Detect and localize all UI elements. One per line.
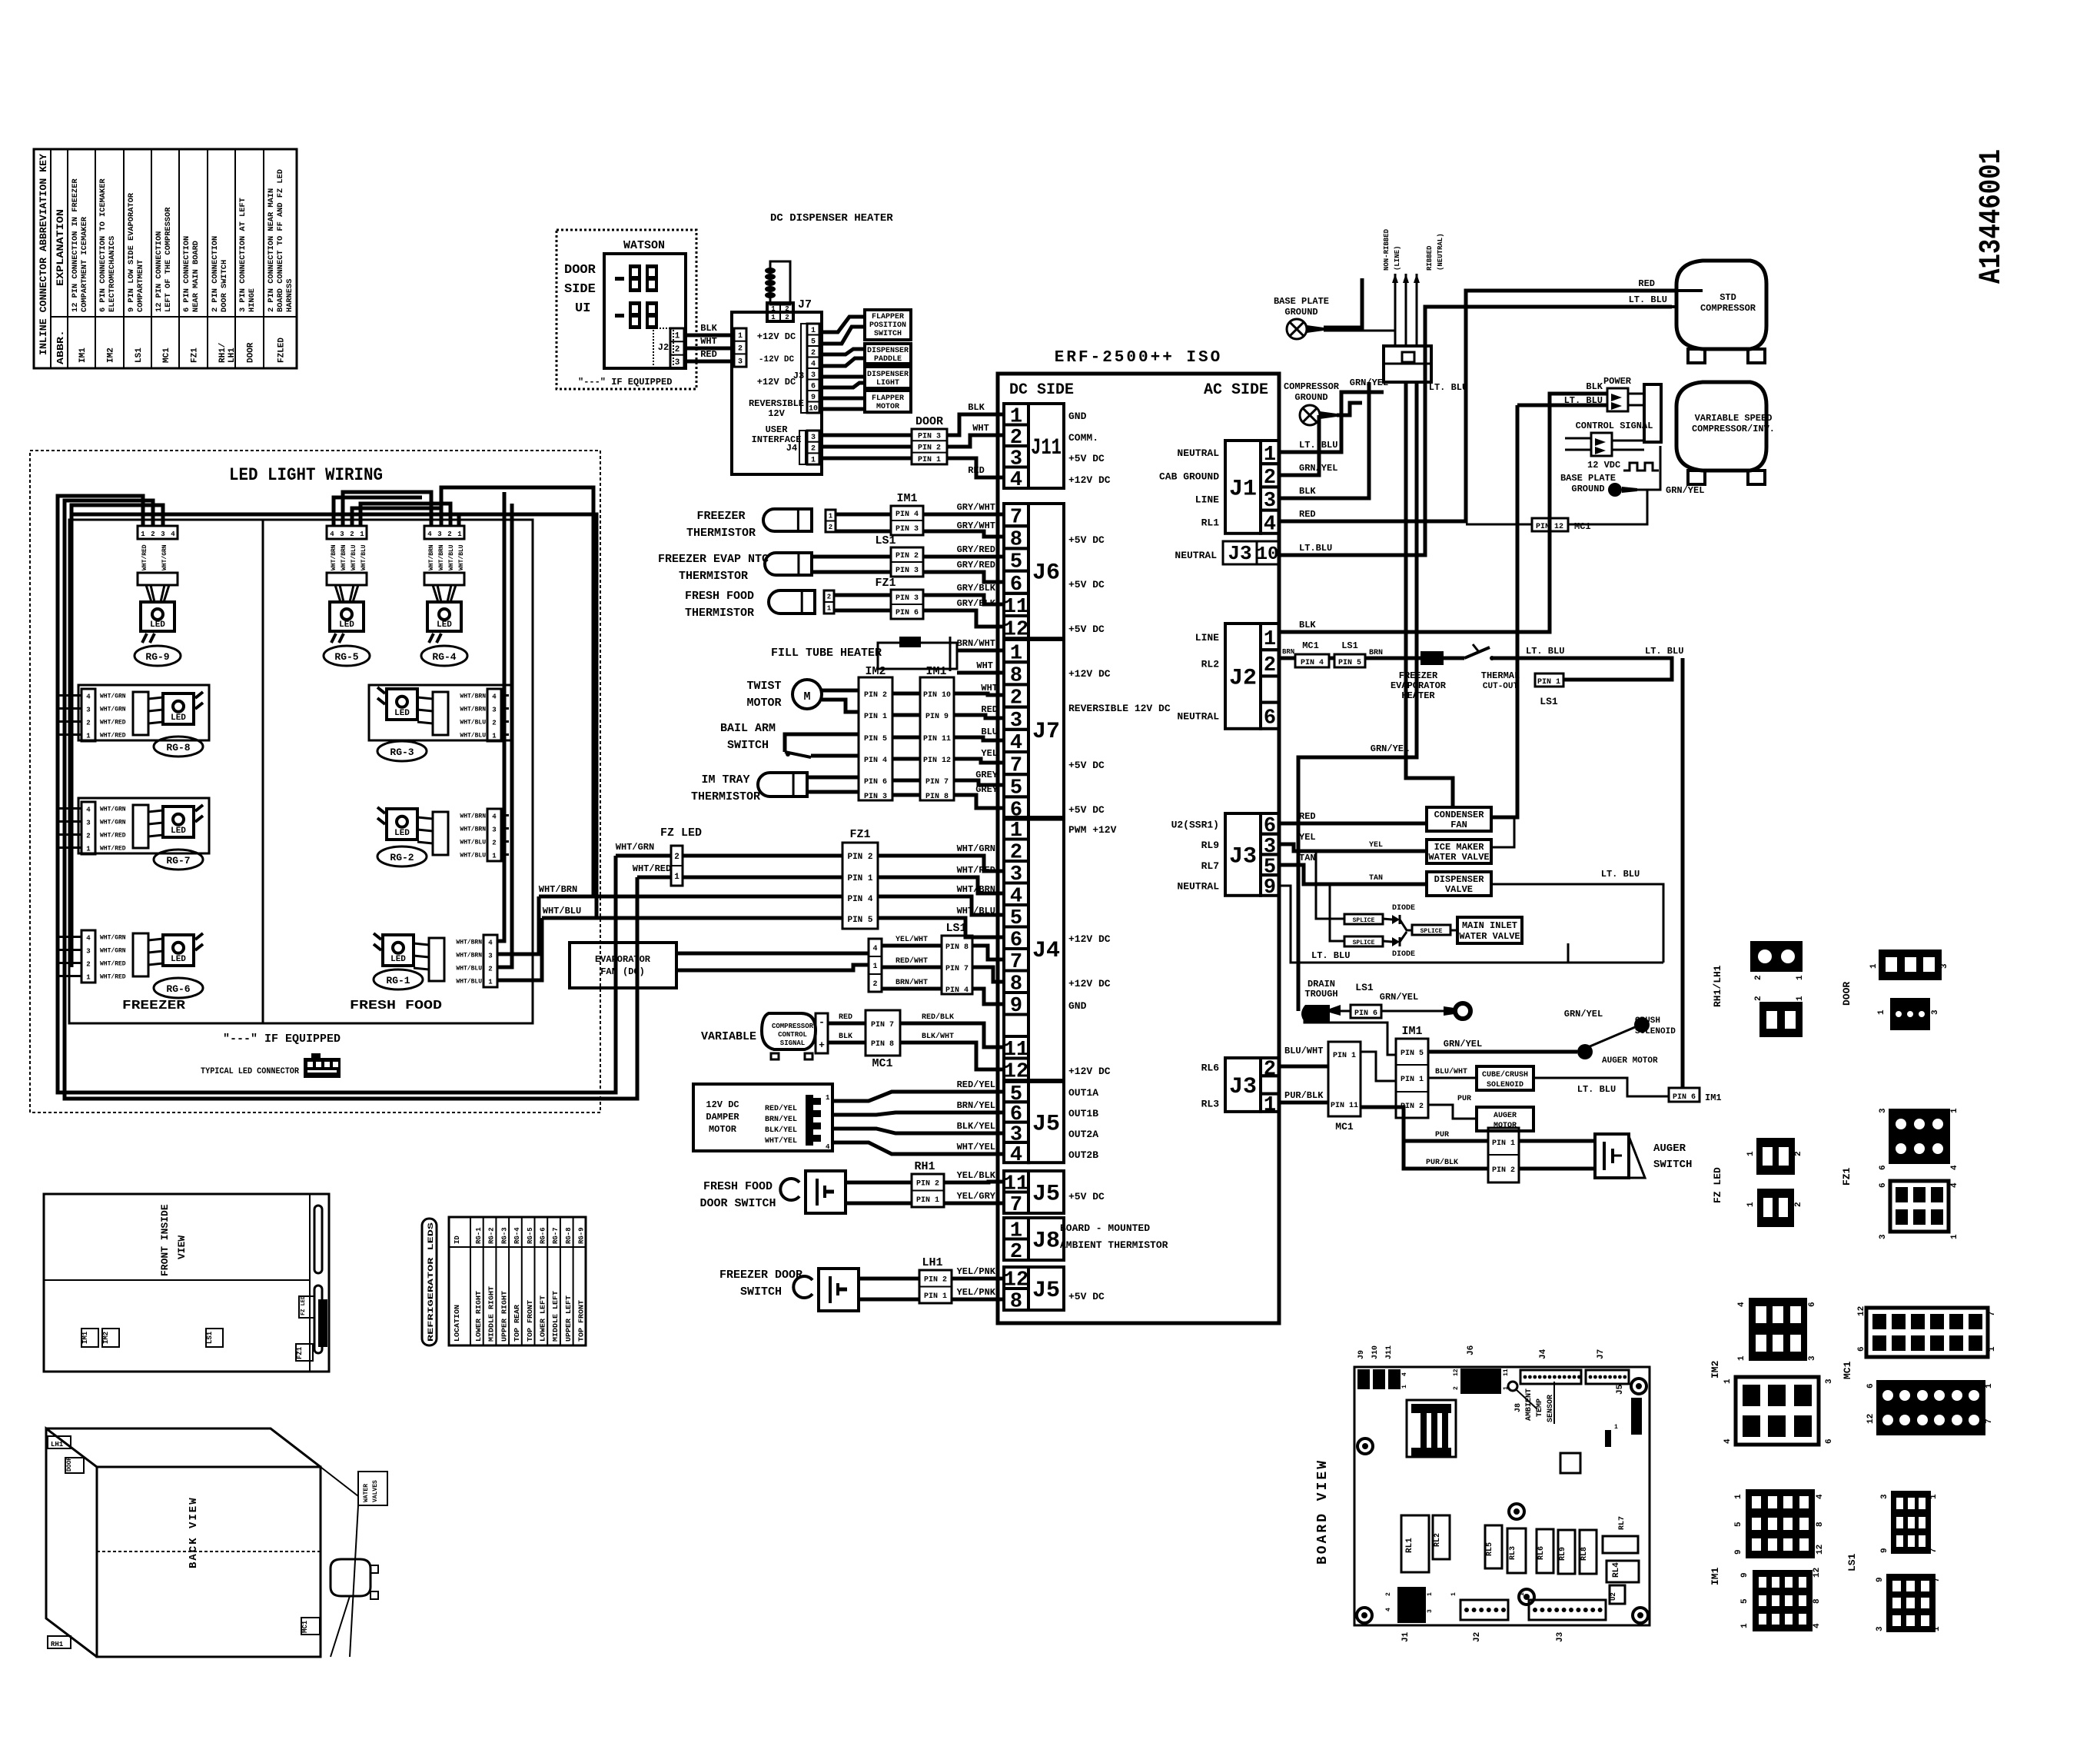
svg-text:PADDLE: PADDLE (874, 355, 902, 364)
svg-text:2: 2 (785, 314, 789, 321)
svg-text:3: 3 (1427, 1609, 1434, 1613)
svg-text:THERMAL: THERMAL (1481, 670, 1520, 681)
key row LS1 (128, 193, 136, 312)
svg-text:FZ1: FZ1 (191, 348, 200, 363)
svg-text:PIN 4: PIN 4 (847, 895, 872, 904)
svg-text:BLK/YEL: BLK/YEL (765, 1126, 797, 1135)
svg-text:HEATER: HEATER (1401, 690, 1435, 701)
auger switch pins (1488, 1128, 1519, 1182)
svg-text:ABBR.: ABBR. (55, 330, 66, 364)
svg-text:WHT/RED: WHT/RED (100, 833, 126, 840)
svg-text:BLK: BLK (968, 402, 985, 413)
svg-text:GRN/YEL: GRN/YEL (1564, 1009, 1603, 1019)
svg-text:IM1: IM1 (78, 348, 88, 363)
connector J1 (1225, 441, 1261, 534)
wire RED std compressor (1279, 291, 1676, 521)
svg-text:5: 5 (811, 338, 816, 346)
svg-text:J4: J4 (1032, 938, 1060, 964)
svg-text:PIN 1: PIN 1 (847, 874, 872, 883)
label FZ1 pictograms (1841, 1167, 1852, 1186)
svg-text:WHT/BRN: WHT/BRN (460, 707, 486, 713)
svg-text:12: 12 (1813, 1568, 1822, 1578)
svg-text:YEL/GRY: YEL/GRY (957, 1191, 996, 1202)
svg-text:RG-4: RG-4 (432, 651, 456, 663)
svg-text:IM2: IM2 (865, 665, 886, 678)
svg-text:CONDENSER: CONDENSER (1434, 810, 1485, 820)
svg-text:WHT/GRN: WHT/GRN (957, 843, 995, 854)
board connector J5 (1616, 1384, 1625, 1395)
svg-text:SWITCH: SWITCH (740, 1285, 782, 1299)
svg-text:DAMPER: DAMPER (706, 1112, 739, 1122)
svg-text:4: 4 (1950, 1182, 1959, 1188)
svg-text:6: 6 (1825, 1438, 1834, 1444)
svg-text:2 PIN CONNECTION NEAR MAIN: 2 PIN CONNECTION NEAR MAIN (267, 188, 276, 312)
board relay RL5 (1485, 1525, 1502, 1568)
svg-text:RED: RED (1638, 278, 1655, 289)
svg-text:LOCATION: LOCATION (454, 1305, 461, 1342)
wire WHT/GRN FZ LED to FZ1 and J4 (616, 854, 671, 858)
svg-text:WHT/BLU: WHT/BLU (361, 544, 367, 570)
svg-text:BRN/WHT: BRN/WHT (895, 978, 928, 987)
board small part (1605, 1430, 1611, 1447)
connector IM1 PIN 6 inline (1669, 1088, 1700, 1102)
svg-text:9 PIN LOW SIDE EVAPORATOR: 9 PIN LOW SIDE EVAPORATOR (128, 193, 136, 312)
wires evap thermistor to J6 (812, 555, 891, 559)
wire PUR IM1 to auger motor (1428, 1105, 1477, 1119)
wire LT. BLU std compressor (1279, 307, 1672, 555)
svg-text:LS1: LS1 (1355, 982, 1374, 993)
board connectors J9 J10 J11 (1357, 1350, 1366, 1359)
svg-text:12 PIN CONNECTION: 12 PIN CONNECTION (155, 231, 164, 312)
svg-text:COMPARTMENT ICEMAKER: COMPARTMENT ICEMAKER (81, 217, 89, 312)
svg-text:2: 2 (488, 966, 492, 973)
front inside view box (44, 1194, 329, 1372)
wires splices (1316, 851, 1344, 919)
svg-text:DOOR: DOOR (1841, 982, 1852, 1006)
abbreviation key table (34, 149, 297, 368)
svg-text:LOWER RIGHT: LOWER RIGHT (475, 1290, 483, 1342)
svg-text:8: 8 (1816, 1522, 1825, 1527)
svg-text:4: 4 (427, 530, 432, 538)
board relay RL7 (1603, 1536, 1638, 1553)
svg-text:GRN/YEL: GRN/YEL (1666, 485, 1704, 496)
svg-text:J5: J5 (1032, 1278, 1060, 1304)
svg-text:WHT/RED: WHT/RED (100, 961, 126, 968)
LED module RG-5 (327, 526, 367, 539)
svg-text:PIN 5: PIN 5 (847, 916, 872, 925)
pictogram IM2 plug (1749, 1298, 1807, 1361)
svg-text:6 PIN CONNECTION TO ICEMAKER: 6 PIN CONNECTION TO ICEMAKER (99, 178, 108, 312)
board ic u-part (1560, 1453, 1580, 1473)
svg-text:WHT/RED: WHT/RED (100, 720, 126, 727)
svg-text:MC1: MC1 (1842, 1361, 1853, 1379)
svg-text:EVAPORATOR: EVAPORATOR (595, 954, 651, 965)
wire MC1 to IM1 block (1361, 1052, 1396, 1081)
svg-text:FRESH FOOD: FRESH FOOD (350, 999, 442, 1013)
svg-text:FRESH FOOD: FRESH FOOD (703, 1180, 773, 1193)
svg-text:GROUND: GROUND (1284, 307, 1317, 318)
svg-text:8: 8 (1010, 1291, 1022, 1314)
svg-text:WHT: WHT (976, 660, 993, 671)
wires IM2 to IM1 block internal (892, 692, 920, 696)
svg-text:PIN 4: PIN 4 (864, 757, 887, 765)
board connector J3 (1529, 1600, 1606, 1620)
svg-text:1: 1 (1264, 1094, 1276, 1117)
ice maker water valve box (1427, 840, 1491, 863)
svg-text:CONTROL: CONTROL (778, 1031, 807, 1039)
svg-text:TAN: TAN (1299, 853, 1316, 863)
svg-text:PIN 7: PIN 7 (925, 778, 949, 787)
svg-text:1: 1 (1723, 1379, 1733, 1384)
svg-text:WHT/GRN: WHT/GRN (161, 544, 168, 570)
svg-text:SPLICE: SPLICE (1420, 928, 1443, 935)
wires freezer door switch to J5 (859, 1277, 919, 1281)
svg-text:RG-3: RG-3 (390, 747, 414, 758)
svg-text:M: M (803, 690, 810, 703)
svg-text:MC1: MC1 (162, 348, 171, 363)
label oval RG-8 (154, 737, 203, 757)
damper motor connector glyph (806, 1095, 813, 1146)
svg-text:3: 3 (437, 530, 441, 538)
svg-text:GRY/WHT: GRY/WHT (957, 520, 995, 531)
wire LT. BLU to power conn (1491, 405, 1517, 817)
svg-text:J6: J6 (1032, 560, 1060, 587)
wire WHT DOOR-J11 (947, 435, 1004, 447)
svg-text:J1: J1 (1229, 476, 1257, 502)
svg-text:+12V DC: +12V DC (1068, 474, 1111, 486)
svg-text:RED: RED (968, 465, 985, 476)
svg-text:FZ LED: FZ LED (1712, 1167, 1723, 1203)
svg-text:BOARD VIEW: BOARD VIEW (1315, 1458, 1331, 1565)
svg-text:WHT/BRN: WHT/BRN (539, 884, 577, 895)
svg-text:1: 1 (1746, 1151, 1756, 1156)
label RH1/LH1 pictograms (1712, 965, 1723, 1007)
pictogram DOOR socket (1890, 998, 1930, 1030)
svg-text:SPLICE: SPLICE (1353, 917, 1375, 924)
svg-text:DISPENSER: DISPENSER (867, 347, 909, 355)
svg-text:4: 4 (86, 806, 91, 814)
svg-text:WHT/YEL: WHT/YEL (765, 1136, 797, 1146)
svg-text:DOOR: DOOR (66, 1457, 73, 1472)
svg-text:3: 3 (1876, 1626, 1885, 1631)
wire LT.BLU cube to IM1 pin6 (1533, 1078, 1669, 1096)
svg-text:BRN/YEL: BRN/YEL (765, 1115, 797, 1124)
svg-text:FZ1: FZ1 (875, 577, 895, 590)
svg-text:ICE MAKER: ICE MAKER (1434, 842, 1485, 853)
board relay RL3 (1507, 1528, 1526, 1573)
svg-text:4: 4 (811, 360, 816, 368)
svg-text:PIN 2: PIN 2 (864, 691, 887, 700)
wires damper motor to J5 (832, 1092, 1004, 1101)
svg-text:WHT/BLU: WHT/BLU (460, 840, 486, 846)
svg-text:UI: UI (575, 301, 590, 316)
svg-text:MOTOR: MOTOR (746, 697, 781, 710)
connector J5 out (1028, 1082, 1064, 1162)
svg-text:DIODE: DIODE (1392, 950, 1415, 959)
svg-text:POSITION: POSITION (869, 321, 906, 330)
svg-text:2: 2 (738, 345, 743, 354)
svg-text:FZ1: FZ1 (1841, 1167, 1852, 1186)
svg-text:12: 12 (1857, 1306, 1866, 1316)
svg-text:FREEZER EVAP NTC: FREEZER EVAP NTC (658, 553, 769, 566)
pictogram MC1 socket (1876, 1380, 1985, 1435)
connector J5 door sw (1028, 1171, 1064, 1213)
svg-text:THERMISTOR: THERMISTOR (685, 607, 754, 620)
board relay RL9 (1558, 1530, 1575, 1574)
svg-text:J7: J7 (1597, 1349, 1606, 1359)
svg-text:FZLED: FZLED (277, 338, 287, 363)
svg-text:GROUND: GROUND (1294, 392, 1327, 403)
svg-text:AMBIENT THERMISTOR: AMBIENT THERMISTOR (1060, 1239, 1168, 1251)
svg-text:OUT2A: OUT2A (1068, 1129, 1098, 1140)
svg-text:1: 1 (829, 512, 833, 520)
svg-text:RED: RED (1299, 811, 1316, 822)
svg-text:PUR: PUR (1435, 1131, 1449, 1139)
svg-text:COMPARTMENT: COMPARTMENT (137, 260, 145, 312)
svg-text:LT.BLU: LT.BLU (1299, 543, 1332, 554)
svg-text:12V DC: 12V DC (706, 1099, 739, 1110)
svg-text:GRN/YEL: GRN/YEL (1380, 992, 1418, 1003)
svg-text:LS1: LS1 (1341, 640, 1358, 651)
variable speed compressor (1676, 382, 1766, 471)
svg-text:TROUGH: TROUGH (1304, 989, 1337, 999)
svg-text:RG-9: RG-9 (578, 1227, 586, 1244)
svg-text:LED: LED (394, 709, 410, 718)
svg-text:RG-6: RG-6 (166, 983, 190, 995)
svg-text:4: 4 (330, 530, 334, 538)
svg-text:TEMP: TEMP (1536, 1398, 1544, 1417)
board connector J6 (1467, 1345, 1476, 1355)
wires ff thermistor to J6 (834, 594, 891, 597)
svg-text:1: 1 (1985, 1383, 1994, 1389)
svg-text:WHT: WHT (981, 683, 998, 693)
svg-text:RG-9: RG-9 (145, 651, 169, 663)
svg-text:RED/YEL: RED/YEL (765, 1104, 797, 1113)
wire LT. BLU cutout to PIN1 (1492, 658, 1672, 680)
svg-text:LS1: LS1 (945, 922, 966, 935)
front view label FZ LED (299, 1296, 314, 1318)
svg-text:3: 3 (161, 530, 164, 538)
svg-text:YEL/PNK: YEL/PNK (957, 1266, 996, 1277)
svg-text:FILL TUBE HEATER: FILL TUBE HEATER (771, 647, 882, 660)
label oval RG-3 (377, 741, 427, 761)
svg-text:LT. BLU: LT. BLU (1601, 869, 1640, 880)
svg-text:WHT/RED: WHT/RED (100, 733, 126, 740)
label oval RG-9 (135, 646, 181, 666)
dc dispenser heater element (770, 261, 790, 304)
label oval RG-5 (324, 646, 370, 666)
svg-text:J5: J5 (1616, 1384, 1625, 1395)
svg-text:4: 4 (1010, 1144, 1022, 1167)
svg-text:7: 7 (1010, 1194, 1022, 1217)
wire rail WHT/GRN left (58, 501, 616, 1093)
svg-text:1: 1 (811, 327, 816, 335)
svg-text:HINGE: HINGE (248, 288, 257, 312)
label oval RG-7 (154, 850, 203, 870)
svg-text:RL3: RL3 (1509, 1546, 1517, 1560)
svg-text:VALVES: VALVES (372, 1480, 379, 1502)
key row FZ1 (183, 236, 191, 312)
svg-text:DC DISPENSER HEATER: DC DISPENSER HEATER (770, 212, 893, 224)
svg-text:RED: RED (839, 1013, 852, 1022)
svg-text:WHT/BRN: WHT/BRN (460, 826, 486, 833)
wire YEL J3.3 to ice maker valve (1279, 844, 1427, 851)
svg-text:MAIN INLET: MAIN INLET (1462, 920, 1517, 931)
svg-text:4: 4 (492, 693, 497, 701)
pictogram IM1 socket (1753, 1570, 1813, 1631)
LED module RG-7 (78, 798, 209, 853)
svg-text:(NEUTRAL): (NEUTRAL) (1437, 233, 1444, 271)
svg-text:WHT/BLU: WHT/BLU (543, 906, 581, 916)
svg-text:WHT/BLU: WHT/BLU (460, 853, 486, 860)
svg-text:WHT/BLU: WHT/BLU (351, 544, 357, 570)
led inner box freezer/fresh food (69, 520, 533, 1023)
svg-text:PIN 1: PIN 1 (1401, 1076, 1424, 1084)
connector FZ LED pins (671, 846, 683, 886)
door side UI box (557, 230, 696, 389)
svg-text:1: 1 (1746, 1202, 1756, 1207)
connector J11 (1028, 404, 1064, 488)
svg-text:WHT/GRN: WHT/GRN (100, 948, 126, 955)
svg-text:FAN: FAN (1450, 820, 1467, 830)
svg-text:7: 7 (1985, 1418, 1994, 1424)
svg-text:WHT/BLU: WHT/BLU (456, 966, 482, 973)
LED module RG-9 (138, 526, 178, 539)
svg-text:RG-7: RG-7 (166, 855, 190, 866)
svg-text:WHT/GRN: WHT/GRN (100, 935, 126, 942)
svg-text:PUR/BLK: PUR/BLK (1284, 1090, 1324, 1101)
svg-text:PIN 7: PIN 7 (945, 965, 969, 973)
svg-text:BASE PLATE: BASE PLATE (1560, 473, 1616, 484)
svg-text:LEFT OF THE COMPRESSOR: LEFT OF THE COMPRESSOR (164, 208, 173, 312)
svg-text:-12V DC: -12V DC (759, 355, 795, 364)
svg-text:FZ LED: FZ LED (301, 1296, 307, 1315)
condenser fan box (1427, 807, 1491, 831)
svg-text:3: 3 (811, 434, 816, 442)
pictogram LS1 socket (1886, 1574, 1936, 1632)
svg-text:4: 4 (86, 935, 91, 943)
svg-text:NEUTRAL: NEUTRAL (1177, 880, 1219, 892)
connector J3-10 (1223, 541, 1257, 564)
svg-text:12V: 12V (768, 408, 785, 419)
connector J3 pins (807, 324, 819, 413)
svg-text:VALVE: VALVE (1445, 884, 1473, 895)
board relay RL2 (1433, 1515, 1450, 1559)
svg-text:1: 1 (457, 530, 462, 538)
wire GRN/YEL IM1 pin5 to solenoids (1428, 1050, 1577, 1054)
svg-text:DOOR: DOOR (564, 263, 596, 278)
svg-text:WHT/BRN: WHT/BRN (438, 544, 445, 570)
svg-text:TYPICAL LED CONNECTOR: TYPICAL LED CONNECTOR (201, 1067, 299, 1076)
svg-text:3: 3 (1808, 1355, 1817, 1361)
svg-text:WATSON: WATSON (623, 239, 665, 252)
svg-text:ELECTROMECHANICS: ELECTROMECHANICS (108, 236, 117, 312)
svg-text:1: 1 (86, 974, 91, 982)
power cord lines (1394, 274, 1397, 346)
svg-text:MOTOR: MOTOR (709, 1124, 737, 1135)
svg-text:BLU/WHT: BLU/WHT (1435, 1067, 1467, 1076)
svg-text:J11: J11 (1385, 1345, 1394, 1359)
wire RED J3.6 to condenser fan (1279, 822, 1427, 826)
svg-text:4: 4 (1737, 1302, 1746, 1307)
svg-text:PIN 2: PIN 2 (916, 1179, 939, 1188)
svg-text:GRY/BLK: GRY/BLK (957, 583, 996, 594)
svg-text:+: + (819, 1039, 825, 1051)
svg-text:7: 7 (1932, 1577, 1942, 1582)
wire rail third left (70, 510, 74, 967)
svg-text:1: 1 (1401, 1385, 1408, 1389)
pictogram IM2 socket (1736, 1377, 1819, 1445)
stubs RG-3 pins (501, 694, 509, 697)
svg-text:THERMISTOR: THERMISTOR (679, 570, 748, 583)
svg-text:SIDE: SIDE (564, 282, 596, 297)
label oval RG-6 (154, 978, 203, 998)
svg-text:BLK: BLK (1299, 486, 1316, 497)
svg-text:4: 4 (1950, 1165, 1959, 1170)
svg-text:12 VDC: 12 VDC (1587, 460, 1620, 471)
svg-text:PIN 6: PIN 6 (864, 778, 887, 787)
svg-text:LOWER LEFT: LOWER LEFT (540, 1295, 547, 1342)
svg-text:12: 12 (1004, 618, 1028, 641)
svg-text:WHT/BLU: WHT/BLU (448, 544, 455, 570)
wire bus to right rails (441, 487, 593, 896)
svg-text:PUR: PUR (1457, 1095, 1471, 1103)
svg-text:1: 1 (492, 853, 497, 860)
svg-text:J7: J7 (1032, 719, 1060, 745)
svg-text:+12V DC: +12V DC (1068, 978, 1111, 989)
svg-text:RG-2: RG-2 (488, 1227, 496, 1244)
pictogram LS1 plug (1891, 1491, 1931, 1554)
svg-text:GRY/BLK: GRY/BLK (957, 598, 996, 609)
svg-text:VARIABLE SPEED: VARIABLE SPEED (1695, 413, 1773, 424)
svg-text:2 PIN CONNECTION: 2 PIN CONNECTION (211, 236, 220, 312)
connector freezer therm conn (826, 510, 836, 532)
svg-text:WHT/GRN: WHT/GRN (100, 693, 126, 700)
svg-text:PIN 2: PIN 2 (918, 444, 941, 453)
svg-text:SWITCH: SWITCH (1653, 1159, 1692, 1171)
std compressor (1676, 261, 1766, 349)
svg-text:1: 1 (1796, 975, 1805, 980)
svg-text:8: 8 (1813, 1598, 1822, 1604)
svg-text:LED: LED (394, 829, 410, 838)
refrigerator leds table (422, 1219, 437, 1345)
svg-text:WHT/GRN: WHT/GRN (100, 820, 126, 826)
back view label RH1 (48, 1636, 71, 1648)
wire LT. BLU bottom loop (1279, 886, 1663, 963)
dispenser valve box (1427, 872, 1491, 896)
svg-text:BLK: BLK (1586, 381, 1603, 392)
wires freezer thermistor to J6 (836, 513, 891, 517)
svg-text:WHT/BLU: WHT/BLU (460, 733, 486, 740)
svg-text:+12V DC: +12V DC (757, 331, 796, 342)
label oval RG-2 (377, 846, 427, 866)
svg-text:STD: STD (1720, 292, 1736, 303)
svg-text:WHT/BLU: WHT/BLU (458, 544, 465, 570)
wires auger pins to switch (1519, 1139, 1595, 1143)
svg-text:1: 1 (872, 963, 877, 971)
svg-text:AUGER: AUGER (1653, 1142, 1686, 1155)
svg-text:3: 3 (492, 707, 496, 714)
wires evap fan to LS1 to J4 (882, 944, 942, 948)
connector J3 ssr (1225, 813, 1261, 896)
wires J3 to flapper motor (819, 397, 865, 401)
svg-text:2: 2 (1453, 1386, 1460, 1390)
wire right feeder rails (497, 492, 504, 941)
svg-text:+5V DC: +5V DC (1068, 804, 1105, 816)
wire rail WHT/RED left (65, 505, 637, 1099)
svg-text:LED LIGHT WIRING: LED LIGHT WIRING (229, 465, 383, 485)
svg-text:IM1: IM1 (1710, 1567, 1721, 1585)
